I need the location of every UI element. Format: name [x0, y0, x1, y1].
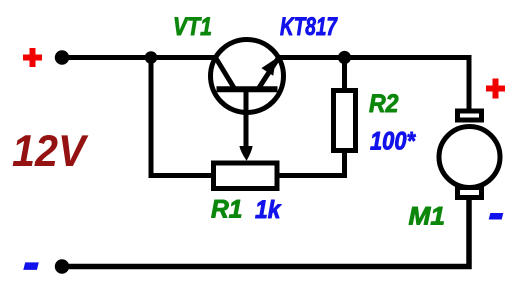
svg-text:M1: M1	[409, 202, 446, 230]
svg-text:12V: 12V	[12, 127, 89, 176]
transistor VT1 collector lead	[216, 58, 234, 88]
node: + supply terminal dot	[55, 50, 69, 64]
transistor VT1 circle	[211, 40, 284, 113]
- symbol supply (blue)	[23, 262, 39, 270]
transistor VT1 emitter lead	[259, 58, 279, 89]
resistor R1 (potentiometer body)	[214, 163, 278, 189]
motor M1 bottom brush	[458, 188, 482, 198]
motor M1 circle	[439, 127, 500, 188]
node: junction top-left (rail / R1 branch)	[145, 51, 158, 64]
node: - supply terminal dot	[55, 259, 69, 273]
svg-text:1k: 1k	[255, 196, 282, 224]
wire: base lead down to potentiometer wiper	[244, 89, 249, 148]
svg-text:VT1: VT1	[173, 13, 212, 41]
+ symbol supply (red)	[23, 48, 42, 67]
wire: left drop from junction to R1 left terminal	[151, 55, 216, 176]
motor M1 top brush	[458, 111, 482, 120]
svg-text:R1: R1	[211, 195, 243, 223]
transistor VT1 base bar	[217, 86, 278, 92]
wire: R1 right terminal to R2 bottom	[274, 150, 345, 176]
svg-text:KT817: KT817	[280, 13, 338, 41]
+ symbol motor (red)	[486, 79, 505, 99]
transistor VT1 emitter arrow	[261, 59, 276, 76]
- symbol motor (blue)	[489, 213, 504, 220]
resistor R2 body	[334, 91, 356, 151]
wire: R2 top lead from emitter-rail junction	[342, 58, 347, 93]
svg-text:100*: 100*	[370, 127, 416, 155]
wire: bottom rail (- terminal to motor)	[62, 195, 469, 267]
potentiometer R1 wiper arrow	[239, 146, 252, 161]
wire: top rail right (transistor emitter to motor, corner down)	[272, 58, 469, 113]
svg-text:R2: R2	[369, 90, 399, 118]
node: junction above R2	[338, 51, 351, 64]
wire: top rail left (+ terminal to transistor collector)	[62, 55, 222, 60]
